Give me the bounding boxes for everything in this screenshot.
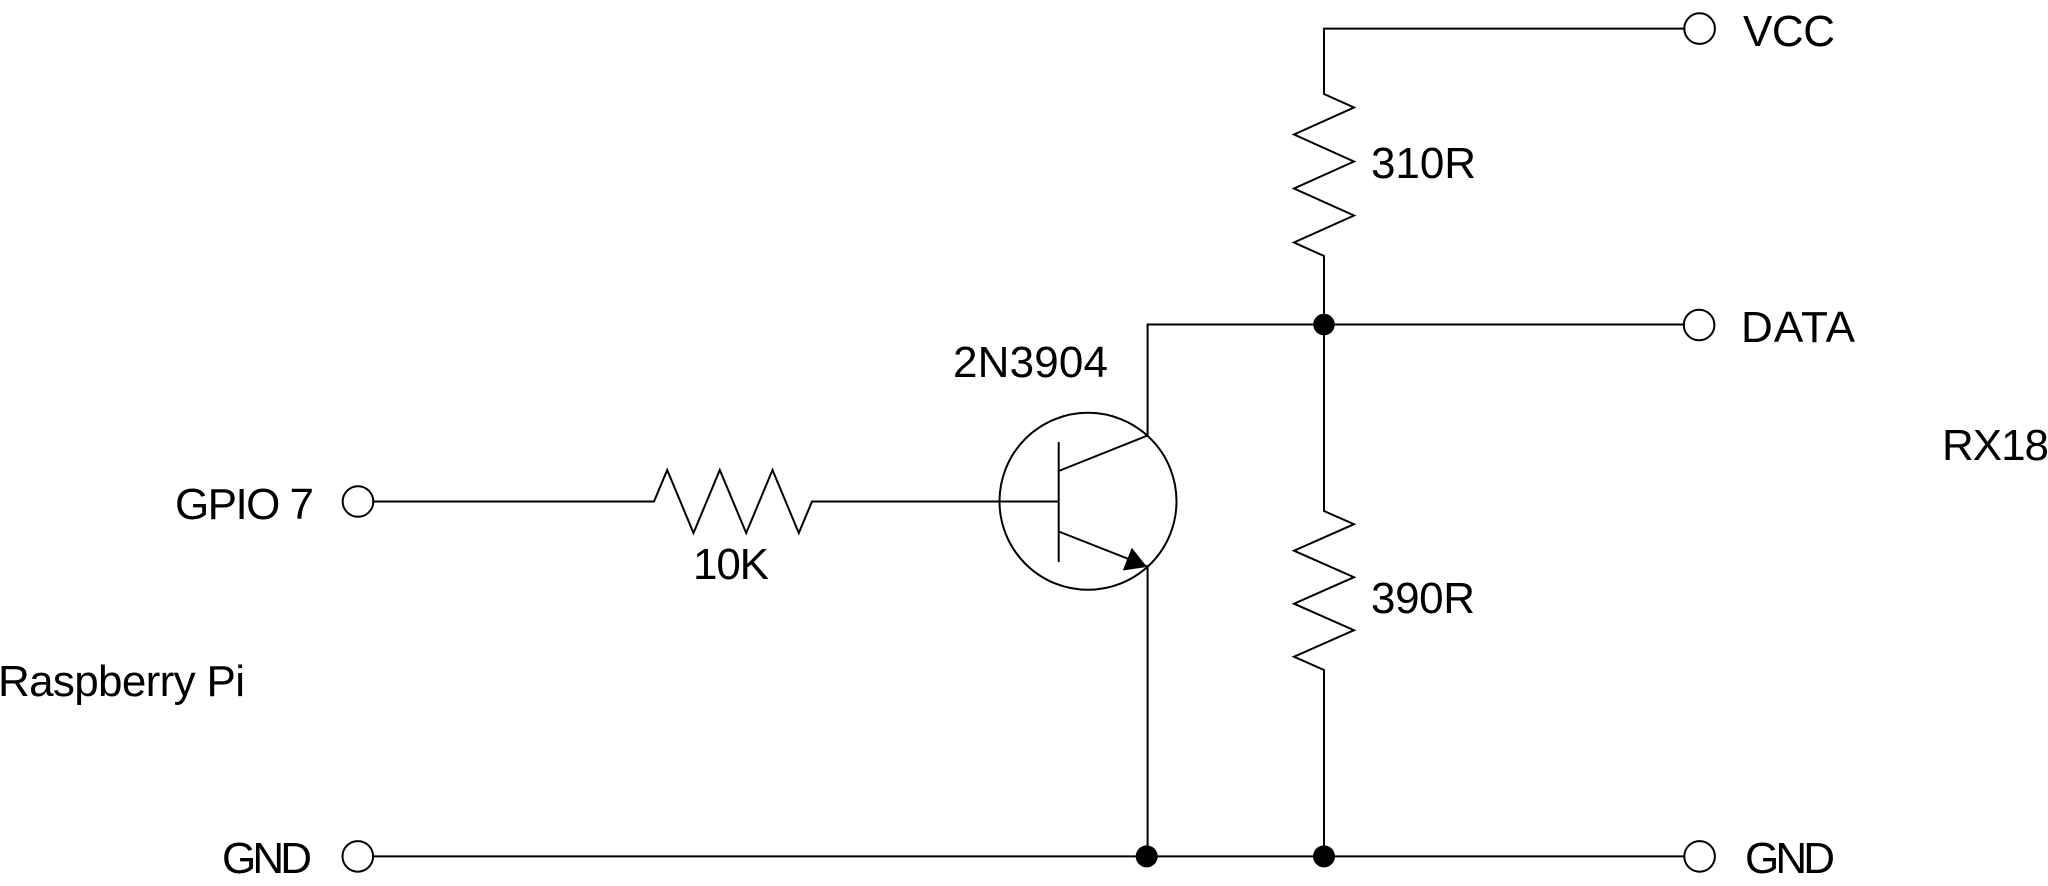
resistor R1 10K [654, 470, 812, 533]
svg-text:2N3904: 2N3904 [953, 338, 1108, 387]
svg-text:GND: GND [1745, 834, 1835, 883]
svg-text:310R: 310R [1371, 139, 1476, 188]
wire GND rail [373, 855, 1684, 857]
terminal GND right [1684, 841, 1715, 872]
terminal GND left [343, 841, 374, 872]
svg-text:10K: 10K [693, 540, 769, 589]
transistor body circle [1000, 413, 1177, 590]
svg-text:RX18: RX18 [1942, 421, 2048, 470]
terminal VCC [1684, 13, 1715, 44]
svg-text:DATA: DATA [1741, 303, 1856, 352]
resistor R2 310R [1294, 94, 1354, 256]
wire 390R to GND rail [1323, 670, 1325, 856]
svg-text:390R: 390R [1371, 574, 1475, 623]
wire DATA horizontal [1148, 324, 1685, 326]
base bar [1058, 443, 1060, 562]
wire DATA node down to 390R [1323, 325, 1325, 512]
svg-text:GND: GND [222, 834, 312, 883]
wire VCC horizontal [1324, 28, 1684, 30]
emitter arrowhead [1123, 548, 1147, 571]
wire 10K to Q1 base [812, 501, 1059, 503]
junction DATA node [1313, 314, 1335, 336]
svg-text:Raspberry Pi: Raspberry Pi [0, 657, 245, 706]
svg-text:GPIO 7: GPIO 7 [175, 480, 314, 529]
terminal DATA [1684, 310, 1715, 341]
resistor R3 390R [1294, 511, 1354, 670]
wire collector to DATA node [1147, 325, 1149, 436]
wire VCC down to 310R [1323, 29, 1325, 94]
emitter line [1059, 532, 1148, 567]
collector line [1059, 436, 1148, 472]
terminal GPIO 7 [343, 486, 374, 517]
transistor Q1 2N3904 [1000, 413, 1177, 590]
wire GPIO7 to 10K [373, 501, 654, 503]
wire emitter to GND rail [1147, 567, 1149, 857]
svg-text:VCC: VCC [1743, 7, 1835, 56]
wire 310R to DATA node [1323, 256, 1325, 325]
junction emitter-GND [1136, 845, 1158, 867]
junction 390R-GND [1313, 845, 1335, 867]
